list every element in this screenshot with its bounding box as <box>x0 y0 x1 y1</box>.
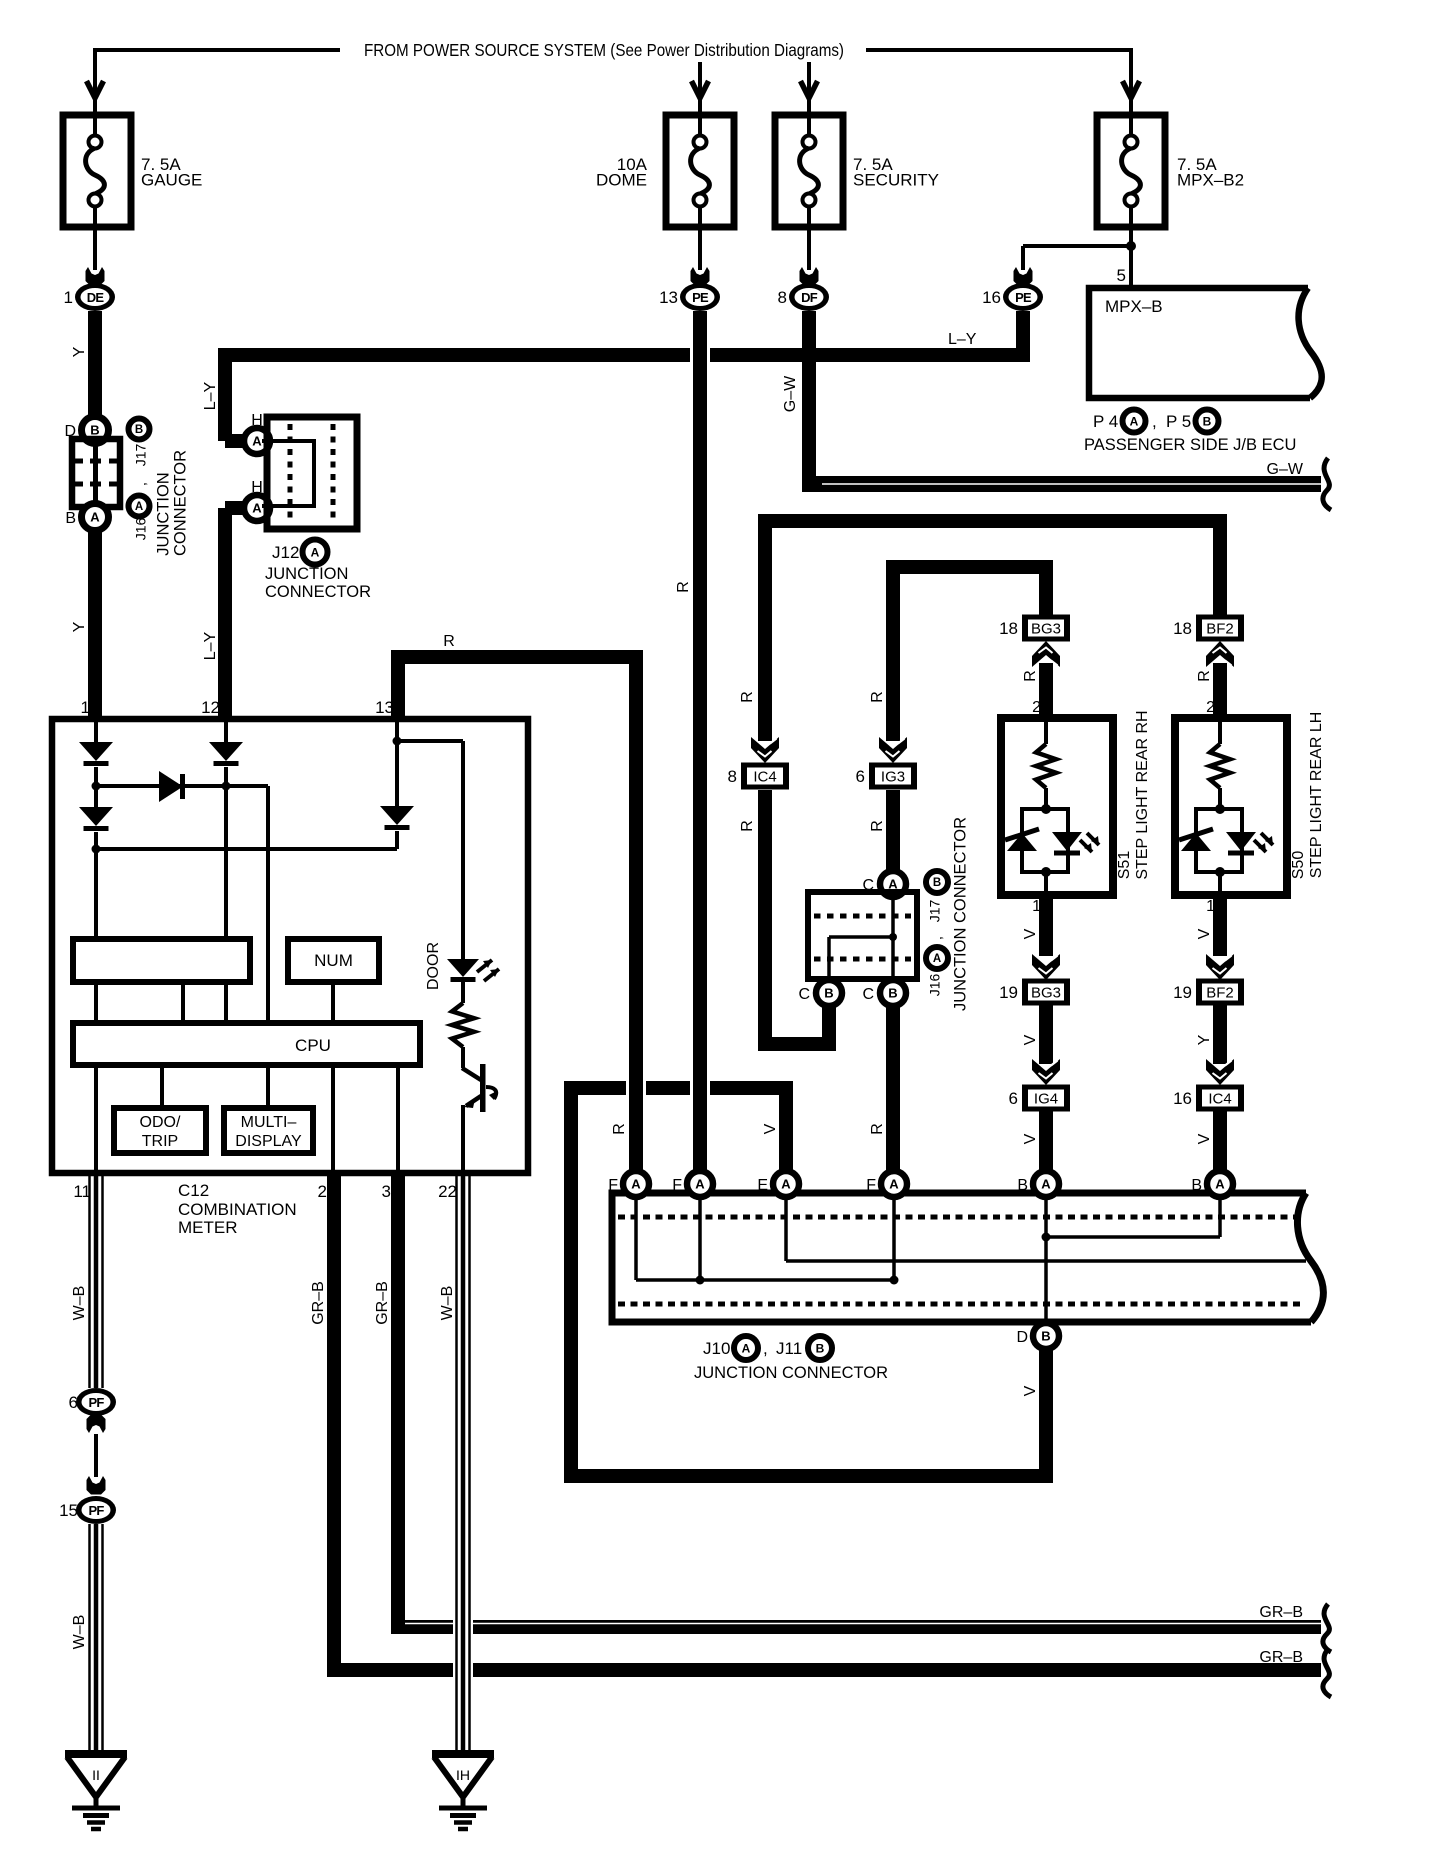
wire pin12 to internal block <box>224 786 228 939</box>
S50 LED (down) <box>1226 832 1256 851</box>
arrow up into 18 BG3 <box>1032 641 1060 667</box>
svg-text:V: V <box>1196 928 1213 939</box>
arrow into 6 IG4 <box>1032 1059 1060 1085</box>
fuse 7.5A SECURITY <box>775 115 843 227</box>
wire gauge fuse to connector DE <box>93 227 97 270</box>
connector 16 PE <box>1003 283 1043 311</box>
svg-text:F: F <box>608 1177 618 1194</box>
svg-text:C: C <box>798 986 810 1003</box>
svg-text:IG4: IG4 <box>1034 1091 1058 1108</box>
svg-text:B: B <box>888 986 897 1001</box>
wire down to 18 BG3 <box>1039 567 1053 615</box>
connector 8 DF <box>789 283 829 311</box>
svg-text:R: R <box>443 633 455 650</box>
wire G-W horizontal to right edge (split style) <box>809 476 1321 492</box>
svg-text:SECURITY: SECURITY <box>853 171 939 190</box>
svg-text:V: V <box>762 1123 779 1134</box>
svg-text:2: 2 <box>318 1182 327 1201</box>
wire led to resistor <box>461 982 465 1003</box>
wire CPU to meter pin 11 <box>94 1065 98 1173</box>
svg-text:BG3: BG3 <box>1031 621 1061 638</box>
connector 19 BG3 <box>1022 979 1070 1006</box>
wire NUM to CPU <box>331 982 335 1023</box>
diode D3 middle pointing right <box>159 771 183 802</box>
svg-text:19: 19 <box>1173 983 1192 1002</box>
svg-text:B: B <box>1017 1177 1028 1194</box>
wire V below S51 <box>1039 895 1053 956</box>
wire V loop from junction connector E pin <box>564 1081 578 1483</box>
junction strip pin B-A 2 <box>1207 1171 1233 1197</box>
svg-text:J12: J12 <box>272 543 299 562</box>
wire R below IC4 <box>758 790 772 1051</box>
junction strip pin F-A 1 <box>623 1171 649 1197</box>
wire down to 18 BF2 <box>1213 521 1227 615</box>
svg-text:V: V <box>1022 1385 1039 1396</box>
arrow down into 15 PF <box>87 1476 106 1495</box>
wire Y between BF2 and IC4 <box>1213 1005 1227 1064</box>
svg-text:NUM: NUM <box>314 951 353 970</box>
block MPX-B passenger side J/B ECU <box>1089 288 1310 398</box>
node pin12 junction y786 <box>222 782 231 791</box>
connector 18 BG3 <box>1022 615 1070 642</box>
connector 1 DE <box>75 283 115 311</box>
svg-text:CONNECTOR: CONNECTOR <box>265 583 371 601</box>
svg-text:CPU: CPU <box>295 1036 331 1055</box>
svg-text:V: V <box>1022 1034 1039 1045</box>
arrow into 19 BF2 <box>1206 954 1234 980</box>
wire R from C-B down to junction strip F pin <box>886 1006 900 1171</box>
svg-text:A: A <box>1215 1177 1225 1192</box>
svg-text:PF: PF <box>88 1395 104 1410</box>
connector 15 PF <box>76 1496 116 1524</box>
diode D2 pin1 lower <box>94 786 98 807</box>
arrow up into 18 BF2 <box>1206 641 1234 667</box>
svg-text:IC4: IC4 <box>753 769 776 786</box>
junction strip pin F-A 2 <box>687 1171 713 1197</box>
svg-text:B: B <box>824 986 833 1001</box>
svg-text:B: B <box>65 510 76 527</box>
wire CPU to meter pin 3 <box>396 1065 400 1173</box>
wire resistor to transistor <box>461 1047 465 1068</box>
svg-text:DF: DF <box>801 290 818 305</box>
diode D4 pin12 <box>209 742 243 761</box>
strip internal wire E net to right edge <box>784 1197 788 1261</box>
svg-text:J17: J17 <box>133 444 149 467</box>
arrow into security fuse <box>801 81 818 98</box>
svg-text:TRIP: TRIP <box>142 1133 178 1150</box>
svg-text:J16: J16 <box>133 518 149 541</box>
svg-text:J11: J11 <box>776 1339 802 1358</box>
wire meter pin12 internal <box>224 722 228 742</box>
S51 internal resistor <box>1044 722 1048 744</box>
wire internal horizontal y849 <box>96 847 397 851</box>
arrow into 8 IC4 <box>751 737 779 763</box>
svg-text:,: , <box>929 936 945 940</box>
block NUM <box>288 939 379 982</box>
wire R from meter pin 13 up and right <box>391 657 405 719</box>
svg-text:METER: METER <box>178 1218 238 1237</box>
svg-text:L–Y: L–Y <box>202 381 219 410</box>
svg-text:MULTI–: MULTI– <box>241 1114 297 1131</box>
svg-text:8: 8 <box>728 767 737 786</box>
block MULTI-DISPLAY <box>224 1108 313 1153</box>
svg-text:A: A <box>695 1177 705 1192</box>
svg-text:BG3: BG3 <box>1031 985 1061 1002</box>
svg-text:W–B: W–B <box>439 1286 456 1321</box>
connector 8 IC4 <box>741 763 789 790</box>
arrow into connector DE <box>86 267 105 286</box>
svg-text:W–B: W–B <box>71 1615 88 1650</box>
svg-text:A: A <box>311 545 320 559</box>
svg-text:Y: Y <box>71 621 88 632</box>
svg-text:13: 13 <box>375 698 394 717</box>
junction strip pin B-A 1 <box>1033 1171 1059 1197</box>
junction connector pin C-B left <box>816 980 842 1006</box>
wire gauge box to CPU x226 <box>224 982 228 1023</box>
svg-text:J16: J16 <box>927 974 943 997</box>
S51 LED (down) <box>1052 832 1082 851</box>
wire J12 internal bridge <box>262 441 314 506</box>
svg-text:STEP LIGHT REAR LH: STEP LIGHT REAR LH <box>1308 712 1325 879</box>
svg-text:A: A <box>781 1177 791 1192</box>
svg-text:R: R <box>1022 670 1039 682</box>
wire mpx-b2 fuse down to MPX-B ecu <box>1129 227 1133 288</box>
svg-text:18: 18 <box>999 619 1018 638</box>
wire security fuse feed stub <box>807 62 811 115</box>
svg-text:R: R <box>869 1123 886 1135</box>
svg-text:A: A <box>252 434 262 449</box>
svg-text:C: C <box>862 986 874 1003</box>
wire power feed left <box>95 48 340 52</box>
svg-text:STEP LIGHT REAR RH: STEP LIGHT REAR RH <box>1134 710 1151 879</box>
svg-text:8: 8 <box>778 288 787 307</box>
connector 6 IG3 <box>869 763 917 790</box>
svg-text:A: A <box>889 1177 899 1192</box>
step light rear RH S51 box <box>1001 718 1113 895</box>
svg-text:G–W: G–W <box>782 375 799 412</box>
svg-text:A: A <box>631 1177 641 1192</box>
wire internal horizontal y786 <box>96 784 268 788</box>
wire transistor emitter to meter pin 22 <box>461 1105 465 1173</box>
svg-text:F: F <box>672 1177 682 1194</box>
LED door indicator <box>447 959 479 977</box>
wire R from meter pin13 down to junction F pin <box>626 1077 646 1099</box>
svg-text:MPX–B2: MPX–B2 <box>1177 171 1244 190</box>
svg-text:FROM POWER SOURCE SYSTEM (See: FROM POWER SOURCE SYSTEM (See Power Dist… <box>364 40 844 60</box>
wire between PF connectors <box>94 1434 98 1477</box>
svg-text:R: R <box>611 1123 628 1135</box>
S51 protection diode (up) <box>1007 833 1037 851</box>
svg-text:2: 2 <box>1032 699 1041 716</box>
svg-text:22: 22 <box>438 1182 457 1201</box>
svg-text:C12: C12 <box>178 1181 209 1200</box>
svg-text:D: D <box>1016 1329 1028 1346</box>
svg-text:J10: J10 <box>703 1339 730 1358</box>
wire branch to connector 16 PE <box>1023 244 1131 248</box>
wire R below IG3 <box>886 790 900 871</box>
svg-text:R: R <box>739 691 756 703</box>
svg-text:18: 18 <box>1173 619 1192 638</box>
junction strip pin F-A 3 <box>881 1171 907 1197</box>
arrow into gauge fuse <box>87 81 104 98</box>
wire dome fuse to connector PE <box>698 227 702 270</box>
svg-text:PASSENGER SIDE J/B ECU: PASSENGER SIDE J/B ECU <box>1084 436 1296 454</box>
svg-text:L–Y: L–Y <box>948 331 977 348</box>
resistor door branch <box>452 1003 474 1047</box>
wire Y from connector DE to J16 pin D <box>88 311 102 418</box>
svg-text:R: R <box>739 820 756 832</box>
svg-text:12: 12 <box>201 698 220 717</box>
junction connector J16/J17 pin C-A <box>880 871 906 897</box>
svg-text:G–W: G–W <box>1267 461 1304 478</box>
arrow into connector 8 DF <box>800 267 819 286</box>
svg-text:BF2: BF2 <box>1206 985 1234 1002</box>
wire L-Y up to connector 16 PE <box>1016 311 1030 355</box>
wire W-B from meter pin 11 <box>88 1173 91 1388</box>
fuse 7.5A GAUGE <box>63 115 131 227</box>
arrow up into 6 PF <box>87 1415 106 1434</box>
fuse 7.5A MPX-B2 <box>1097 115 1165 227</box>
svg-text:R: R <box>869 820 886 832</box>
wire GR-B from meter pin 3 (upper run) <box>391 1173 405 1627</box>
svg-text:V: V <box>1196 1133 1213 1144</box>
svg-text:JUNCTION: JUNCTION <box>265 565 348 583</box>
ground IH <box>432 1750 494 1758</box>
wire gauge box to CPU x96 <box>94 982 98 1023</box>
svg-text:A: A <box>252 501 262 516</box>
wire R horizontal upper (IC4 to BF2) <box>758 514 1227 528</box>
wire V below IC4 to junction strip B pin <box>1213 1111 1227 1171</box>
connector 13 PE <box>680 283 720 311</box>
wire V below S50 <box>1213 895 1227 956</box>
wire vertical x268 to CPU <box>266 786 270 1023</box>
arrow into 6 IG3 <box>879 737 907 763</box>
junction connector J16 pin D/B <box>82 417 109 444</box>
connector 6 IG4 <box>1022 1085 1070 1112</box>
arrow into dome fuse <box>692 81 709 98</box>
diode D1 pin1 upper <box>79 742 113 761</box>
svg-text:PE: PE <box>692 290 709 305</box>
svg-text:B: B <box>816 1341 825 1355</box>
svg-text:DE: DE <box>87 290 105 305</box>
wire W-B from meter pin 22 to ground IH <box>453 1616 473 1638</box>
svg-text:16: 16 <box>1173 1089 1192 1108</box>
svg-text:,: , <box>763 1339 768 1358</box>
junction strip pin E-A <box>773 1171 799 1197</box>
svg-text:PF: PF <box>88 1503 104 1518</box>
wire W-B to ground II <box>88 1524 91 1754</box>
svg-text:W–B: W–B <box>71 1286 88 1321</box>
wire V between BG3 and IG4 <box>1039 1005 1053 1064</box>
svg-text:GR–B: GR–B <box>310 1281 327 1325</box>
svg-text:B: B <box>1191 1177 1202 1194</box>
wire R into step light S51 <box>1039 663 1053 718</box>
svg-text:H: H <box>251 479 263 496</box>
junction connector J12 pin H lower <box>244 495 270 521</box>
svg-text:2: 2 <box>1206 699 1215 716</box>
S50 internal bridge <box>1215 804 1225 814</box>
wire CPU to MULTI-DISPLAY <box>266 1065 270 1108</box>
svg-text:JUNCTION CONNECTOR: JUNCTION CONNECTOR <box>951 817 969 1011</box>
svg-text:H: H <box>251 412 263 429</box>
svg-text:ODO/: ODO/ <box>140 1114 181 1131</box>
connector 18 BF2 <box>1196 615 1244 642</box>
svg-text:A: A <box>1041 1177 1051 1192</box>
wire G-W vertical from connector DF <box>799 344 819 366</box>
svg-text:B: B <box>933 877 941 889</box>
svg-text:,: , <box>1152 412 1157 431</box>
arrow into connector 13 PE <box>691 267 710 286</box>
arrow into connector 16 PE <box>1014 267 1033 286</box>
node pin1 lower junction <box>94 832 98 849</box>
wire R dome column down to junction F pin <box>690 344 710 366</box>
svg-text:V: V <box>1022 928 1039 939</box>
svg-text:MPX–B: MPX–B <box>1105 297 1163 316</box>
svg-text:3: 3 <box>382 1182 391 1201</box>
svg-text:R: R <box>675 581 692 593</box>
fuse 10A DOME <box>666 115 734 227</box>
svg-text:1: 1 <box>64 288 73 307</box>
block meter internal gauge box <box>73 939 250 982</box>
wire meter pin13 internal <box>395 722 399 741</box>
svg-text:JUNCTION: JUNCTION <box>154 472 172 555</box>
arrow into 19 BG3 <box>1032 954 1060 980</box>
wire L-Y horizontal bus <box>218 348 1030 362</box>
svg-text:S51: S51 <box>1116 851 1133 880</box>
svg-text:CONNECTOR: CONNECTOR <box>171 450 189 556</box>
svg-text:A: A <box>742 1341 751 1355</box>
break GR-B lower at right edge <box>1323 1649 1331 1697</box>
svg-text:II: II <box>92 1767 100 1783</box>
svg-text:GR–B: GR–B <box>1259 1604 1303 1621</box>
svg-text:A: A <box>135 501 143 513</box>
strip internal wire F net <box>634 1197 638 1280</box>
connector 6 PF <box>76 1388 116 1416</box>
junction strip pin D-B output <box>1033 1323 1059 1349</box>
junction connector pin C-B right <box>880 980 906 1006</box>
svg-text:R: R <box>869 691 886 703</box>
strip internal wire B net <box>1044 1197 1048 1325</box>
S51 internal bridge <box>1041 804 1051 814</box>
wire pin13 to door branch <box>397 739 463 743</box>
S50 protection diode (up) <box>1181 833 1211 851</box>
svg-text:JUNCTION CONNECTOR: JUNCTION CONNECTOR <box>694 1364 888 1382</box>
junction connector J10/J11 strip <box>612 1193 1311 1322</box>
wire pin1 to internal block <box>94 849 98 939</box>
wire from J12 pin H lower down to meter pin 12 <box>225 501 246 515</box>
svg-text:BF2: BF2 <box>1206 621 1234 638</box>
ground II <box>65 1750 127 1758</box>
connector 16 IC4 <box>1196 1085 1244 1112</box>
wire meter pin1 internal <box>94 722 98 742</box>
svg-text:15: 15 <box>59 1501 78 1520</box>
wire CPU to meter pin 2 <box>331 1065 335 1173</box>
junction connector J16 pin B/A <box>82 504 109 531</box>
svg-text:13: 13 <box>659 288 678 307</box>
svg-text:B: B <box>1203 414 1212 428</box>
block ODO/TRIP <box>114 1108 206 1153</box>
junction connector J16/J17 box middle <box>808 892 917 979</box>
wire and node pin1 mid <box>94 767 98 786</box>
wire V below IG4 to junction strip B pin <box>1039 1111 1053 1171</box>
wire gauge box to CPU x183 <box>181 982 185 1023</box>
junction connector J12 box <box>267 417 357 529</box>
svg-text:1: 1 <box>81 698 90 717</box>
svg-text:GAUGE: GAUGE <box>141 171 202 190</box>
svg-text:Y: Y <box>1196 1034 1213 1045</box>
wire L-Y left corner down to J12 pin H upper <box>218 349 232 441</box>
svg-text:16: 16 <box>982 288 1001 307</box>
svg-text:A: A <box>90 510 100 525</box>
junction connector J12 pin H upper <box>244 428 270 454</box>
svg-text:B: B <box>90 423 99 438</box>
wire R horizontal lower (IG3 to BG3) <box>886 560 1053 574</box>
svg-text:DOOR: DOOR <box>425 942 442 990</box>
svg-text:GR–B: GR–B <box>1259 1649 1303 1666</box>
wire power feed right <box>866 48 1131 52</box>
wire GR-B from meter pin 2 (lower run) <box>327 1173 341 1670</box>
junction connector J16/J17 box left <box>72 439 120 507</box>
S50 internal resistor <box>1218 722 1222 744</box>
svg-text:COMBINATION: COMBINATION <box>178 1200 297 1219</box>
break GR-B upper at right edge <box>1323 1604 1331 1652</box>
wire CPU to ODO/TRIP <box>160 1065 164 1108</box>
svg-text:IG3: IG3 <box>881 769 905 786</box>
wire Y from J16 to meter pin 1 <box>88 530 102 719</box>
svg-text:IH: IH <box>456 1767 470 1783</box>
wire IC4 to junction connector C-B pin <box>765 1037 836 1051</box>
svg-text:19: 19 <box>999 983 1018 1002</box>
diode D5 pin13 <box>380 806 414 825</box>
svg-text:V: V <box>1022 1133 1039 1144</box>
svg-text:S50: S50 <box>1290 851 1307 880</box>
wire dome fuse feed stub <box>698 62 702 115</box>
block C12 combination meter outline <box>52 719 528 1173</box>
svg-text:GR–B: GR–B <box>374 1281 391 1325</box>
svg-text:P 5: P 5 <box>1166 412 1191 431</box>
wire internal bridge of middle junction connector <box>891 895 895 979</box>
svg-text:E: E <box>757 1177 768 1194</box>
svg-text:5: 5 <box>1117 266 1126 285</box>
wire security fuse to connector DF <box>807 227 811 270</box>
transistor Q1 door output <box>480 1064 486 1112</box>
svg-text:Y: Y <box>71 346 88 357</box>
svg-text:J17: J17 <box>927 900 943 923</box>
block CPU <box>73 1023 420 1065</box>
arrow into mpx-b2 fuse <box>1123 81 1140 98</box>
connector 19 BF2 <box>1196 979 1244 1006</box>
svg-text:L–Y: L–Y <box>202 631 219 660</box>
svg-text:R: R <box>1196 670 1213 682</box>
svg-text:A: A <box>933 953 941 965</box>
arrow into 16 IC4 <box>1206 1059 1234 1085</box>
svg-text:,: , <box>133 482 149 486</box>
svg-text:IC4: IC4 <box>1208 1091 1231 1108</box>
svg-text:A: A <box>1130 414 1139 428</box>
break G-W wire at right edge <box>1323 458 1331 510</box>
node junction on mpx-b2 output <box>1126 241 1136 251</box>
svg-text:F: F <box>866 1177 876 1194</box>
svg-text:B: B <box>135 424 143 436</box>
step light rear LH S50 box <box>1175 718 1287 895</box>
svg-text:DISPLAY: DISPLAY <box>235 1133 302 1150</box>
wire R into step light S50 <box>1213 663 1227 718</box>
svg-text:PE: PE <box>1015 290 1032 305</box>
svg-text:6: 6 <box>1009 1089 1018 1108</box>
svg-text:B: B <box>1041 1329 1050 1344</box>
svg-text:P 4: P 4 <box>1093 412 1118 431</box>
svg-text:6: 6 <box>69 1393 78 1412</box>
